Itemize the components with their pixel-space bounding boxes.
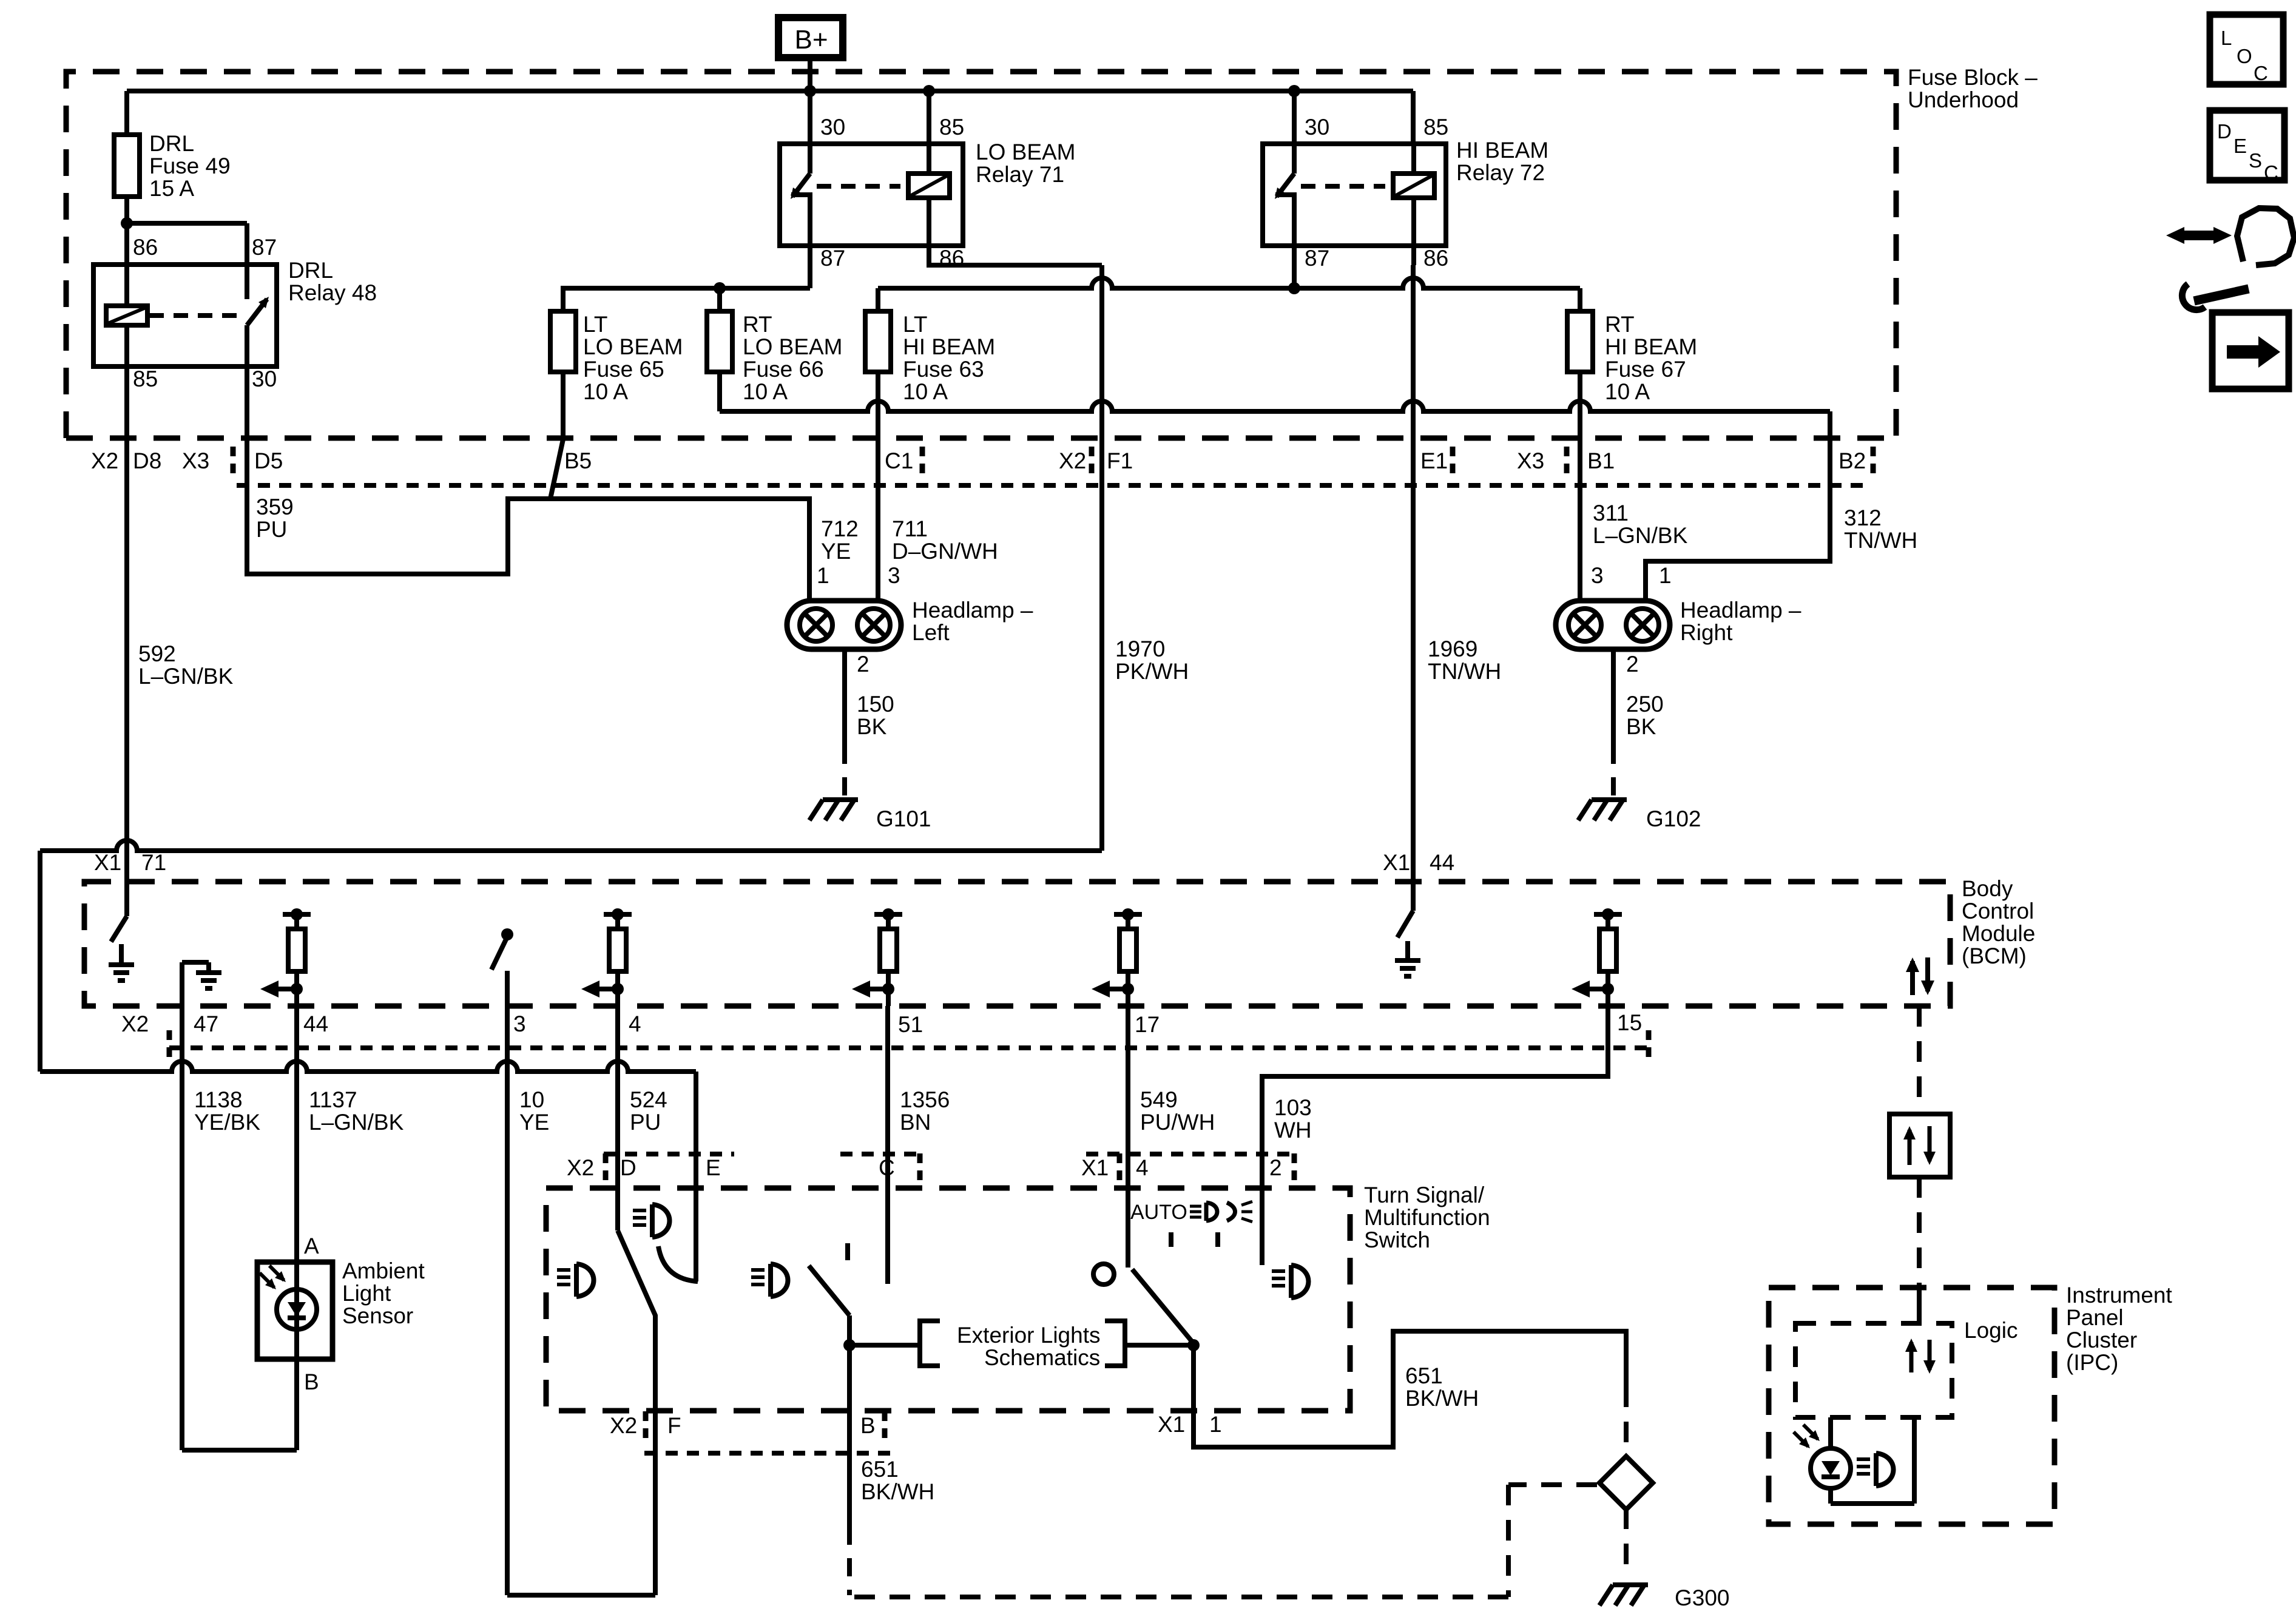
svg-text:1138: 1138 — [194, 1087, 243, 1112]
svg-text:C: C — [2254, 62, 2268, 84]
svg-text:YE: YE — [519, 1110, 549, 1135]
svg-text:D: D — [620, 1155, 636, 1180]
svg-text:C: C — [2264, 161, 2278, 184]
svg-text:87: 87 — [252, 235, 277, 260]
svg-text:X2: X2 — [610, 1413, 637, 1438]
svg-text:X3: X3 — [182, 448, 209, 473]
svg-text:10 A: 10 A — [903, 379, 948, 404]
svg-text:10 A: 10 A — [743, 379, 788, 404]
svg-text:359: 359 — [256, 495, 294, 519]
svg-text:C1: C1 — [885, 448, 913, 473]
svg-text:4: 4 — [1136, 1155, 1149, 1180]
svg-text:3: 3 — [513, 1011, 526, 1036]
svg-text:47: 47 — [194, 1011, 218, 1036]
svg-text:Panel: Panel — [2066, 1305, 2124, 1330]
svg-text:312: 312 — [1844, 505, 1882, 530]
svg-text:Relay 72: Relay 72 — [1456, 160, 1545, 185]
svg-text:(IPC): (IPC) — [2066, 1350, 2118, 1375]
svg-text:Control: Control — [1962, 899, 2034, 923]
svg-text:Fuse 65: Fuse 65 — [583, 357, 664, 382]
svg-text:X1: X1 — [1081, 1155, 1109, 1180]
svg-text:3: 3 — [888, 563, 900, 588]
svg-text:1356: 1356 — [900, 1087, 950, 1112]
svg-text:PK/WH: PK/WH — [1115, 659, 1189, 684]
svg-text:86: 86 — [1423, 246, 1448, 271]
svg-text:LO BEAM: LO BEAM — [743, 334, 843, 359]
svg-text:10: 10 — [519, 1087, 544, 1112]
svg-text:L–GN/BK: L–GN/BK — [138, 664, 234, 689]
svg-text:HI BEAM: HI BEAM — [1456, 138, 1548, 163]
svg-text:Sensor: Sensor — [342, 1303, 413, 1328]
svg-text:B1: B1 — [1587, 448, 1615, 473]
svg-text:Fuse Block –: Fuse Block – — [1908, 65, 2038, 90]
svg-text:F1: F1 — [1107, 448, 1133, 473]
svg-text:Fuse 66: Fuse 66 — [743, 357, 824, 382]
svg-text:Right: Right — [1680, 620, 1733, 645]
svg-text:LO BEAM: LO BEAM — [583, 334, 683, 359]
svg-text:Headlamp –: Headlamp – — [912, 598, 1033, 623]
svg-text:Cluster: Cluster — [2066, 1328, 2137, 1352]
svg-text:10 A: 10 A — [583, 379, 628, 404]
svg-text:85: 85 — [133, 366, 158, 391]
svg-text:HI BEAM: HI BEAM — [903, 334, 995, 359]
svg-text:Switch: Switch — [1364, 1227, 1430, 1252]
svg-text:PU: PU — [630, 1110, 661, 1135]
svg-text:LT: LT — [583, 312, 607, 337]
svg-text:C: C — [879, 1155, 895, 1180]
svg-text:Multifunction: Multifunction — [1364, 1205, 1490, 1230]
svg-text:RT: RT — [743, 312, 772, 337]
svg-text:Underhood: Underhood — [1908, 87, 2019, 112]
svg-text:DRL: DRL — [149, 131, 194, 156]
svg-text:592: 592 — [138, 641, 176, 666]
svg-text:X2: X2 — [121, 1011, 149, 1036]
svg-text:LO BEAM: LO BEAM — [976, 140, 1076, 164]
svg-text:X1: X1 — [1383, 850, 1410, 875]
svg-text:L–GN/BK: L–GN/BK — [309, 1110, 404, 1135]
svg-text:Module: Module — [1962, 921, 2035, 946]
svg-text:X1: X1 — [1158, 1412, 1185, 1437]
svg-text:30: 30 — [252, 366, 277, 391]
svg-text:WH: WH — [1274, 1118, 1312, 1143]
svg-text:Headlamp –: Headlamp – — [1680, 598, 1801, 623]
svg-text:YE: YE — [821, 539, 851, 564]
svg-text:E: E — [706, 1155, 721, 1180]
svg-text:B2: B2 — [1838, 448, 1866, 473]
svg-text:Ambient: Ambient — [342, 1258, 425, 1283]
svg-text:E1: E1 — [1420, 448, 1448, 473]
svg-text:G101: G101 — [876, 806, 931, 831]
svg-text:711: 711 — [892, 516, 928, 541]
svg-text:Left: Left — [912, 620, 950, 645]
svg-text:10 A: 10 A — [1605, 379, 1650, 404]
svg-text:D–GN/WH: D–GN/WH — [892, 539, 998, 564]
svg-text:X2: X2 — [567, 1155, 594, 1180]
svg-text:BK: BK — [857, 714, 887, 739]
svg-text:85: 85 — [939, 115, 964, 140]
svg-text:524: 524 — [630, 1087, 667, 1112]
svg-text:651: 651 — [1405, 1363, 1443, 1388]
svg-text:B5: B5 — [564, 448, 592, 473]
svg-text:86: 86 — [133, 235, 158, 260]
svg-text:X2: X2 — [91, 448, 118, 473]
svg-text:712: 712 — [821, 516, 859, 541]
svg-text:L–GN/BK: L–GN/BK — [1593, 523, 1688, 548]
svg-text:71: 71 — [141, 850, 166, 875]
svg-text:1: 1 — [1209, 1412, 1222, 1437]
svg-text:PU: PU — [256, 517, 287, 542]
svg-text:BN: BN — [900, 1110, 931, 1135]
svg-text:S: S — [2249, 149, 2262, 172]
svg-text:HI BEAM: HI BEAM — [1605, 334, 1697, 359]
svg-text:G102: G102 — [1646, 806, 1701, 831]
svg-text:651: 651 — [861, 1457, 899, 1482]
svg-text:Relay 48: Relay 48 — [288, 280, 377, 305]
svg-text:1969: 1969 — [1428, 636, 1477, 661]
svg-text:Exterior Lights: Exterior Lights — [957, 1323, 1101, 1348]
svg-text:RT: RT — [1605, 312, 1635, 337]
svg-text:TN/WH: TN/WH — [1428, 659, 1501, 684]
svg-text:X3: X3 — [1517, 448, 1544, 473]
svg-text:1970: 1970 — [1115, 636, 1165, 661]
svg-text:D8: D8 — [133, 448, 161, 473]
svg-text:B: B — [860, 1413, 876, 1438]
svg-text:44: 44 — [303, 1011, 328, 1036]
svg-text:TN/WH: TN/WH — [1844, 528, 1917, 553]
svg-text:BK/WH: BK/WH — [861, 1479, 934, 1504]
svg-text:549: 549 — [1140, 1087, 1178, 1112]
svg-text:(BCM): (BCM) — [1962, 944, 2027, 968]
svg-text:A: A — [304, 1234, 319, 1258]
svg-text:Fuse 49: Fuse 49 — [149, 154, 231, 178]
svg-text:150: 150 — [857, 692, 894, 717]
svg-text:D5: D5 — [254, 448, 283, 473]
svg-text:YE/BK: YE/BK — [194, 1110, 260, 1135]
svg-text:2: 2 — [1626, 652, 1639, 677]
svg-text:BK/WH: BK/WH — [1405, 1386, 1479, 1411]
svg-text:G300: G300 — [1675, 1585, 1730, 1610]
svg-text:87: 87 — [1305, 246, 1329, 271]
svg-text:250: 250 — [1626, 692, 1664, 717]
svg-text:2: 2 — [857, 652, 869, 677]
svg-text:F: F — [667, 1413, 681, 1438]
svg-text:Turn Signal/: Turn Signal/ — [1364, 1183, 1485, 1207]
svg-text:4: 4 — [629, 1011, 641, 1036]
svg-text:30: 30 — [820, 115, 845, 140]
svg-text:X2: X2 — [1059, 448, 1086, 473]
svg-text:1: 1 — [817, 563, 829, 588]
svg-text:Instrument: Instrument — [2066, 1283, 2173, 1308]
svg-text:15 A: 15 A — [149, 176, 194, 201]
svg-text:Relay 71: Relay 71 — [976, 162, 1064, 187]
svg-text:85: 85 — [1423, 115, 1448, 140]
svg-text:15: 15 — [1617, 1010, 1642, 1035]
svg-text:44: 44 — [1430, 850, 1454, 875]
svg-text:B+: B+ — [794, 25, 828, 55]
svg-text:L: L — [2221, 27, 2232, 49]
svg-text:Logic: Logic — [1964, 1318, 2017, 1343]
svg-text:E: E — [2234, 135, 2247, 157]
svg-text:30: 30 — [1305, 115, 1329, 140]
svg-text:LT: LT — [903, 312, 927, 337]
svg-text:BK: BK — [1626, 714, 1656, 739]
svg-text:Body: Body — [1962, 876, 2013, 901]
svg-text:51: 51 — [898, 1012, 923, 1037]
svg-text:17: 17 — [1135, 1012, 1160, 1037]
svg-text:DRL: DRL — [288, 258, 333, 283]
svg-text:87: 87 — [820, 246, 845, 271]
svg-text:Fuse 67: Fuse 67 — [1605, 357, 1686, 382]
svg-text:X1: X1 — [94, 850, 121, 875]
svg-text:Light: Light — [342, 1281, 391, 1306]
svg-text:B: B — [304, 1369, 319, 1394]
svg-text:AUTO: AUTO — [1130, 1201, 1187, 1224]
svg-text:Schematics: Schematics — [984, 1345, 1100, 1370]
svg-text:PU/WH: PU/WH — [1140, 1110, 1215, 1135]
svg-text:3: 3 — [1591, 563, 1604, 588]
svg-text:1137: 1137 — [309, 1087, 357, 1112]
svg-text:Fuse 63: Fuse 63 — [903, 357, 984, 382]
svg-text:O: O — [2237, 45, 2252, 67]
svg-text:2: 2 — [1269, 1155, 1282, 1180]
svg-text:311: 311 — [1593, 501, 1629, 525]
svg-text:1: 1 — [1659, 563, 1672, 588]
svg-text:103: 103 — [1274, 1095, 1312, 1120]
svg-text:D: D — [2217, 120, 2232, 143]
